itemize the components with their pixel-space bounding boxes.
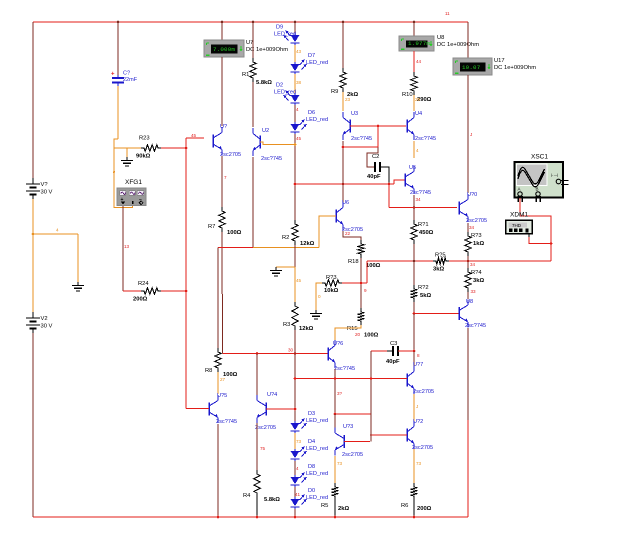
svg-text:R?4: R?4 — [471, 270, 482, 276]
svg-text:3kΩ: 3kΩ — [473, 278, 484, 284]
svg-text:XFG1: XFG1 — [125, 179, 142, 186]
svg-text:U?6: U?6 — [333, 341, 343, 347]
svg-text:2sc?745: 2sc?745 — [334, 366, 355, 372]
svg-text:U6: U6 — [342, 200, 349, 206]
svg-text:45: 45 — [296, 278, 302, 283]
svg-text:22mF: 22mF — [123, 77, 138, 83]
svg-text:34: 34 — [470, 262, 476, 267]
svg-text:XSC1: XSC1 — [531, 154, 548, 161]
svg-text:U?3: U?3 — [343, 424, 353, 430]
svg-text:2sc?745: 2sc?745 — [216, 419, 237, 425]
svg-text:XDM1: XDM1 — [510, 212, 528, 219]
svg-text:27: 27 — [220, 377, 226, 382]
svg-text:U7: U7 — [246, 40, 253, 46]
svg-text:100Ω: 100Ω — [366, 263, 381, 269]
svg-text:450Ω: 450Ω — [419, 230, 434, 236]
svg-text:45: 45 — [296, 136, 302, 141]
svg-text:2sc?745: 2sc?745 — [351, 136, 372, 142]
svg-text:R2: R2 — [282, 235, 289, 241]
svg-text:LED_red: LED_red — [274, 90, 296, 96]
svg-text:R3: R3 — [283, 322, 290, 328]
svg-text:13: 13 — [124, 244, 130, 249]
svg-text:2sc?745: 2sc?745 — [410, 190, 431, 196]
svg-text:3?: 3? — [337, 391, 343, 396]
svg-text:33: 33 — [471, 289, 477, 294]
svg-text:40pF: 40pF — [386, 359, 400, 365]
svg-text:LED_red: LED_red — [306, 117, 328, 123]
svg-text:D4: D4 — [308, 439, 315, 445]
svg-text:41: 41 — [295, 492, 301, 497]
svg-text:4: 4 — [56, 228, 59, 233]
svg-text:20: 20 — [355, 332, 361, 337]
svg-text:D3: D3 — [308, 411, 315, 417]
svg-text:34: 34 — [416, 197, 422, 202]
svg-text:10kΩ: 10kΩ — [324, 288, 339, 294]
svg-text:200Ω: 200Ω — [133, 297, 148, 303]
svg-text:R8: R8 — [205, 368, 212, 374]
svg-text:5kΩ: 5kΩ — [420, 293, 431, 299]
svg-text:LED_red: LED_red — [306, 471, 328, 477]
svg-text:12kΩ: 12kΩ — [300, 241, 315, 247]
svg-text:90kΩ: 90kΩ — [136, 154, 151, 160]
svg-text:LED_red: LED_red — [306, 418, 328, 424]
svg-text:100Ω: 100Ω — [223, 372, 238, 378]
svg-text:40pF: 40pF — [367, 174, 381, 180]
svg-text:R5: R5 — [321, 503, 328, 509]
svg-text:2sc2705: 2sc2705 — [466, 218, 487, 224]
svg-text:R18: R18 — [348, 259, 359, 265]
svg-text:200Ω: 200Ω — [417, 506, 432, 512]
svg-text:U?4: U?4 — [267, 392, 277, 398]
svg-text:7HD: 7HD — [512, 223, 522, 228]
svg-text:29: 29 — [415, 97, 421, 102]
svg-text:U?5: U?5 — [217, 393, 227, 399]
svg-text:U?2: U?2 — [413, 419, 423, 425]
svg-text:R9: R9 — [331, 89, 338, 95]
svg-text:45: 45 — [191, 133, 197, 138]
svg-text:2sc?745: 2sc?745 — [415, 136, 436, 142]
svg-text:75: 75 — [260, 446, 266, 451]
svg-text:U?0: U?0 — [467, 192, 477, 198]
svg-text:R?3: R?3 — [471, 233, 482, 239]
svg-text:100Ω: 100Ω — [364, 333, 379, 339]
svg-text:5.8kΩ: 5.8kΩ — [264, 497, 280, 503]
svg-text:10.07: 10.07 — [462, 64, 481, 71]
svg-text:43: 43 — [296, 49, 302, 54]
svg-text:R?2: R?2 — [418, 285, 429, 291]
svg-text:1kΩ: 1kΩ — [473, 241, 484, 247]
svg-text:2sc2705: 2sc2705 — [412, 445, 433, 451]
svg-text:9: 9 — [364, 288, 367, 293]
svg-text:LED_red: LED_red — [306, 60, 328, 66]
svg-text:4: 4 — [296, 107, 299, 112]
svg-text:2sc2705: 2sc2705 — [413, 389, 434, 395]
svg-text:R7: R7 — [208, 224, 215, 230]
svg-text:U5: U5 — [409, 165, 416, 171]
svg-text:34: 34 — [469, 225, 475, 230]
svg-text:R?3: R?3 — [326, 275, 337, 281]
svg-text:7.000m: 7.000m — [213, 46, 235, 53]
svg-text:100Ω: 100Ω — [227, 230, 242, 236]
svg-text:C?: C? — [123, 71, 130, 77]
svg-text:R10: R10 — [402, 92, 413, 98]
svg-text:30 V: 30 V — [41, 324, 53, 330]
svg-text:⊦⊣: ⊦⊣ — [551, 173, 558, 179]
svg-text:U4: U4 — [415, 111, 422, 117]
svg-text:D6: D6 — [308, 110, 315, 116]
svg-text:1.977m: 1.977m — [408, 40, 430, 47]
svg-text:5.8kΩ: 5.8kΩ — [256, 80, 272, 86]
svg-text:R24: R24 — [138, 281, 149, 287]
svg-text:U17: U17 — [494, 58, 505, 64]
svg-text:DC 1e+009Ohm: DC 1e+009Ohm — [246, 47, 288, 53]
svg-text:R?5: R?5 — [435, 253, 446, 259]
svg-text:2sc?745: 2sc?745 — [261, 156, 282, 162]
svg-text:+: + — [111, 72, 115, 78]
svg-text:R4: R4 — [243, 493, 251, 499]
svg-text:U?: U? — [220, 124, 227, 130]
svg-text:73: 73 — [416, 461, 422, 466]
svg-text:LED_red: LED_red — [306, 446, 328, 452]
svg-text:C3: C3 — [390, 341, 397, 347]
svg-text:2sc2705: 2sc2705 — [220, 152, 241, 158]
svg-text:R6: R6 — [401, 503, 408, 509]
svg-text:73: 73 — [296, 439, 302, 444]
svg-text:J: J — [470, 132, 472, 137]
svg-text:A: A — [518, 187, 521, 192]
svg-text:8: 8 — [417, 353, 420, 358]
svg-text:U8: U8 — [466, 299, 473, 305]
svg-text:LED_red: LED_red — [274, 32, 296, 38]
svg-text:LED_red: LED_red — [306, 495, 328, 501]
svg-text:U3: U3 — [351, 111, 358, 117]
svg-text:D9: D9 — [276, 25, 283, 31]
svg-text:V?: V? — [41, 182, 49, 188]
svg-text:D2: D2 — [276, 83, 283, 89]
svg-text:12kΩ: 12kΩ — [299, 326, 314, 332]
svg-text:R?1: R?1 — [418, 222, 429, 228]
svg-text:U8: U8 — [437, 35, 444, 41]
svg-text:38: 38 — [296, 80, 302, 85]
svg-text:R1: R1 — [242, 72, 249, 78]
svg-text:C2: C2 — [372, 154, 379, 160]
svg-text:2kΩ: 2kΩ — [338, 506, 349, 512]
svg-text:11: 11 — [445, 11, 450, 16]
svg-text:22: 22 — [345, 231, 351, 236]
svg-text:V2: V2 — [41, 316, 48, 322]
svg-text:DC 1e+009Ohm: DC 1e+009Ohm — [437, 42, 479, 48]
svg-text:B: B — [536, 187, 539, 192]
svg-text:30: 30 — [288, 348, 294, 353]
svg-text:U2: U2 — [262, 128, 269, 134]
svg-text:D8: D8 — [308, 464, 315, 470]
svg-text:D7: D7 — [308, 53, 315, 59]
svg-text:J: J — [416, 404, 418, 409]
svg-text:7: 7 — [224, 175, 227, 180]
svg-text:3kΩ: 3kΩ — [433, 267, 444, 273]
svg-text:23: 23 — [345, 97, 351, 102]
svg-text:44: 44 — [416, 59, 422, 64]
svg-text:0: 0 — [318, 294, 321, 299]
svg-text:30 V: 30 V — [41, 190, 53, 196]
svg-text:4: 4 — [416, 148, 419, 153]
svg-text:R23: R23 — [139, 136, 150, 142]
svg-text:D0: D0 — [308, 488, 315, 494]
svg-text:2sc2705: 2sc2705 — [255, 425, 276, 431]
svg-text:73: 73 — [337, 461, 343, 466]
svg-text:DC 1e+009Ohm: DC 1e+009Ohm — [494, 65, 536, 71]
svg-text:4: 4 — [296, 466, 299, 471]
svg-text:U?7: U?7 — [413, 362, 423, 368]
svg-text:2sc2705: 2sc2705 — [342, 452, 363, 458]
